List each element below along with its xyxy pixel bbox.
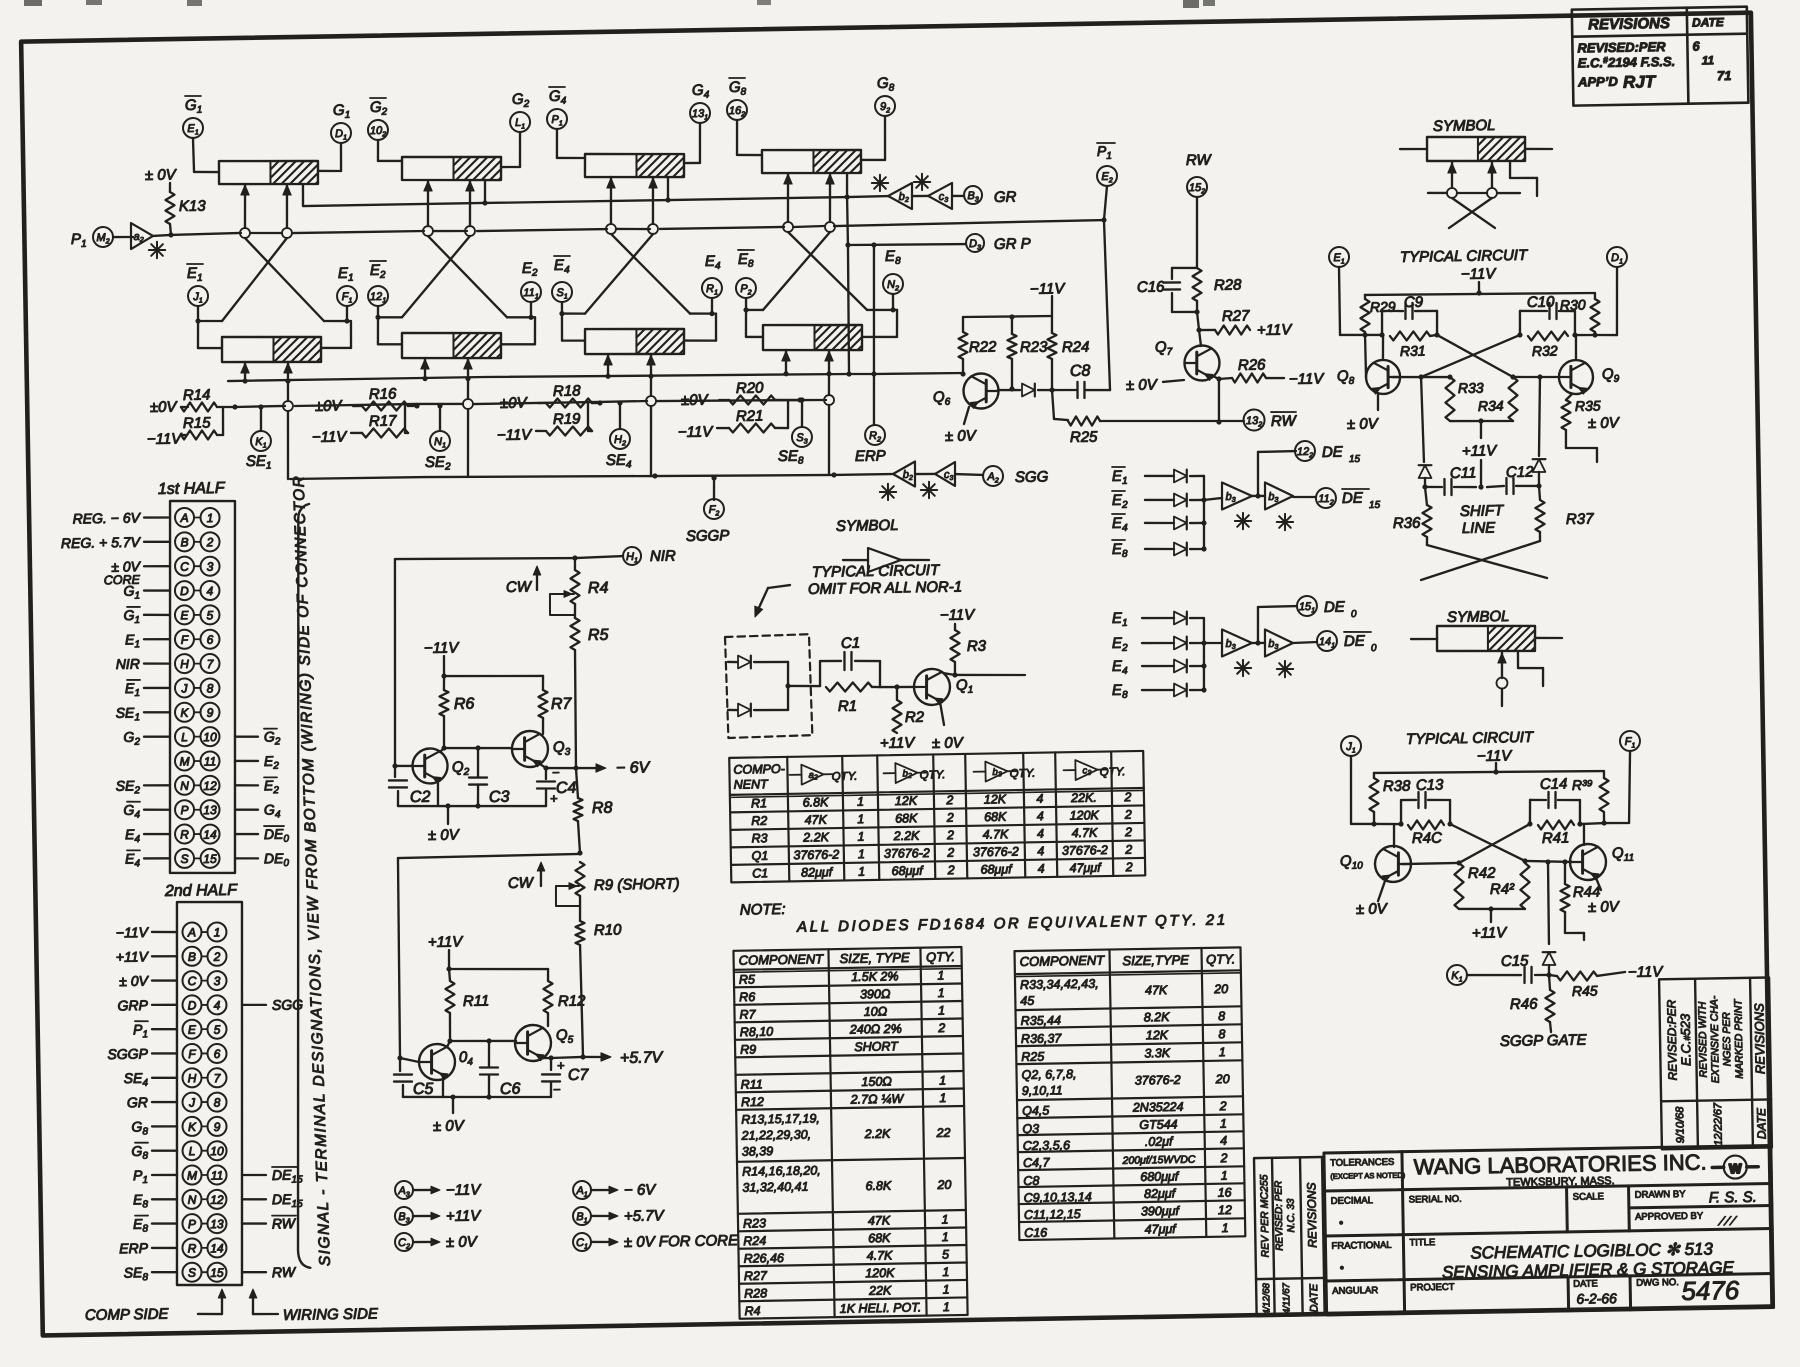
- terminal 13-2 (RWbar): [1243, 409, 1264, 430]
- stage2 left frame wire: [397, 858, 402, 1058]
- svg-text:R25: R25: [1021, 1050, 1044, 1064]
- svg-text:R2: R2: [905, 709, 925, 726]
- wire E8 to diode: [1142, 690, 1174, 691]
- wire down from diode node to RW line: [1052, 390, 1054, 419]
- svg-text:C1: C1: [841, 635, 860, 652]
- capacitor C15: [1523, 967, 1526, 983]
- terminal S3 (SE8): [800, 400, 803, 427]
- terminal 14-1 (DE0bar): [1317, 631, 1337, 651]
- 1st HALF pin L-10: [175, 727, 194, 746]
- 1st HALF right label row 12: [235, 784, 258, 787]
- svg-text:APPROVED BY: APPROVED BY: [1635, 1211, 1704, 1223]
- 2nd HALF pin D-4: [182, 995, 201, 1014]
- svg-text:37676-2: 37676-2: [793, 848, 839, 863]
- wire E2 terminal down to bus junction and on to C8 line: [1103, 186, 1107, 220]
- svg-text:+11V: +11V: [428, 933, 465, 951]
- R9 wiper square: [556, 886, 580, 907]
- svg-text:1: 1: [939, 1074, 946, 1088]
- wire Ebar8 to diode: [1145, 547, 1174, 550]
- wire M2 to amp a2: [113, 236, 133, 239]
- capacitor C5: [399, 1058, 402, 1071]
- 2nd HALF pin C-3: [182, 971, 201, 990]
- Q8 base line wires: [1392, 376, 1450, 378]
- resistor R41: [1538, 820, 1574, 830]
- rail wire Q8/Q9 circuit: [1365, 291, 1595, 297]
- svg-text:6.8K: 6.8K: [803, 795, 830, 809]
- diode pair in dashed box: [728, 661, 737, 664]
- svg-text:OMIT FOR ALL NOR-1: OMIT FOR ALL NOR-1: [808, 578, 962, 598]
- svg-text:RW: RW: [1271, 413, 1298, 430]
- collector bus wire under row2 boxes to Q6: [228, 377, 485, 382]
- svg-text:2.7Ω ¼W: 2.7Ω ¼W: [850, 1092, 905, 1107]
- tap wire box2 hatch corner to G line: [483, 180, 486, 203]
- 2nd HALF pin B-2: [182, 947, 201, 966]
- svg-text:200μf/15WVDC: 200μf/15WVDC: [1121, 1154, 1195, 1167]
- svg-text:R38: R38: [1383, 778, 1411, 795]
- wire R3 to Q1 collector and output: [954, 662, 957, 675]
- 1st HALF pin H-7: [175, 654, 194, 673]
- svg-text:−11V: −11V: [147, 430, 184, 448]
- svg-text:DATE: DATE: [1754, 1107, 1769, 1139]
- svg-text:22K: 22K: [868, 1283, 892, 1297]
- wire Ebar2 to diode: [1145, 498, 1174, 501]
- svg-text:1: 1: [1221, 1169, 1228, 1183]
- svg-text:11: 11: [211, 1168, 224, 1182]
- svg-text:NOTE:: NOTE:: [740, 901, 786, 919]
- core pair 1: bus hop circles: [240, 228, 250, 238]
- svg-text:8.2K: 8.2K: [1144, 1010, 1171, 1024]
- svg-text:390Ω: 390Ω: [860, 987, 891, 1002]
- resistor R40: [1408, 820, 1444, 830]
- capacitor C6: [487, 1041, 490, 1067]
- 2nd HALF pin S-15: [182, 1263, 201, 1282]
- svg-text:R11: R11: [741, 1077, 763, 1091]
- resistor R3: [954, 624, 957, 630]
- svg-text:4: 4: [1220, 1134, 1227, 1148]
- wire P1 terminal to box3 left: [555, 129, 558, 158]
- svg-text:R22: R22: [969, 339, 997, 356]
- wire Ebar1 to diode: [1145, 474, 1174, 477]
- svg-text:C16: C16: [1024, 1226, 1047, 1240]
- arrow to dashed box: [768, 585, 790, 588]
- svg-text:1: 1: [858, 865, 865, 879]
- svg-text:+11V: +11V: [1462, 442, 1499, 460]
- terminal H1 (NIR): [623, 547, 641, 565]
- svg-text:SGG: SGG: [1015, 468, 1049, 486]
- svg-text:1.5K 2%: 1.5K 2%: [851, 969, 898, 984]
- transistor Q3: [512, 731, 549, 768]
- svg-text:R37: R37: [1566, 511, 1594, 528]
- svg-text:4.7K: 4.7K: [983, 827, 1010, 841]
- terminal K1: [1447, 965, 1467, 985]
- svg-text:R44: R44: [1573, 883, 1601, 900]
- wire loop to Q11 collector: [1582, 824, 1585, 845]
- 1st HALF pin K-9: [175, 703, 194, 722]
- svg-text:12K: 12K: [1146, 1028, 1169, 1042]
- svg-text:4: 4: [214, 998, 221, 1012]
- svg-text:M: M: [187, 1168, 197, 1182]
- svg-text:K: K: [188, 1120, 197, 1134]
- svg-text:S: S: [180, 852, 188, 866]
- svg-text:NGES PER: NGES PER: [1721, 1012, 1734, 1067]
- 1st HALF pin E-5: [175, 605, 194, 624]
- 2nd HALF pin N-12: [182, 1190, 201, 1209]
- svg-text:SERIAL NO.: SERIAL NO.: [1409, 1194, 1462, 1206]
- svg-text:A: A: [179, 511, 188, 525]
- wire R7 to Q3 collector: [542, 718, 545, 734]
- svg-text:RW: RW: [272, 1264, 297, 1280]
- core pair 2: lead wires from row1 box bottom to bus: [427, 180, 429, 226]
- svg-text:DWG NO.: DWG NO.: [1636, 1277, 1679, 1289]
- diode E2: [1174, 636, 1187, 649]
- 1st HALF pin S-15: [175, 849, 194, 868]
- svg-text:CW: CW: [508, 875, 535, 892]
- svg-text:± 0V: ± 0V: [1588, 898, 1621, 916]
- wire down to R27 node: [1197, 312, 1199, 330]
- rail wire R22 R23 R24 tops: [963, 316, 1052, 318]
- svg-text:SHIFT: SHIFT: [1460, 502, 1505, 520]
- svg-text:38,39: 38,39: [742, 1144, 774, 1159]
- svg-text:C12: C12: [1506, 464, 1534, 481]
- core transformer box row1 #1: [219, 159, 319, 185]
- svg-text:82μμf: 82μμf: [1144, 1186, 1177, 1201]
- legend terminal C2 = ± 0V: [395, 1233, 413, 1251]
- amp b3 second (DE0bar): [1265, 629, 1294, 656]
- svg-text:2: 2: [1125, 860, 1133, 874]
- terminal K1 (SE1): [259, 407, 262, 431]
- transistor Q8: [1366, 360, 1401, 395]
- svg-text:12: 12: [203, 779, 217, 793]
- svg-text:SGGP GATE: SGGP GATE: [1500, 1032, 1588, 1050]
- svg-text:NENT: NENT: [734, 777, 770, 792]
- svg-text:Q2, 6,7,8,: Q2, 6,7,8,: [1021, 1067, 1076, 1082]
- svg-text:RW: RW: [1186, 152, 1213, 169]
- wire F1 lead down: [1628, 751, 1631, 823]
- core pair 4: Ebar terminal junction wires: [745, 298, 748, 310]
- core pair 3: bus hop circles: [606, 224, 616, 234]
- svg-text:C: C: [188, 974, 197, 988]
- resistor R12: [547, 969, 550, 981]
- svg-text:NIR: NIR: [116, 656, 140, 672]
- svg-text:± 0V FOR CORE: ± 0V FOR CORE: [624, 1232, 739, 1251]
- wire E1 down to base node: [1339, 267, 1340, 335]
- vertical wire pair4 from collector bus down through SE hop to lower bus: [827, 374, 830, 395]
- svg-text:DE: DE: [1344, 633, 1366, 650]
- wire loop right node to R39/F1: [1580, 823, 1604, 824]
- svg-text:SGGP: SGGP: [686, 527, 730, 545]
- transistor Q1: [914, 669, 951, 706]
- svg-text:390μμf: 390μμf: [1141, 1204, 1181, 1219]
- svg-text:M: M: [179, 754, 189, 768]
- svg-text:R31: R31: [1400, 343, 1426, 359]
- svg-text:Q4,5: Q4,5: [1022, 1104, 1049, 1118]
- svg-text:SGGP: SGGP: [107, 1045, 148, 1062]
- svg-text:DE: DE: [1322, 444, 1344, 461]
- svg-text:R4²: R4²: [1490, 881, 1515, 898]
- wire bus to b3 amp DE0: [1204, 642, 1222, 645]
- component table right: [1015, 947, 1246, 1240]
- capacitor C8: [1076, 382, 1079, 398]
- svg-text:0: 0: [1371, 643, 1377, 654]
- svg-text:REVISIONS: REVISIONS: [1588, 15, 1670, 33]
- svg-text:R27: R27: [744, 1269, 768, 1283]
- rail wire R11/R12 tops: [449, 967, 548, 970]
- svg-text:9/10/68: 9/10/68: [1674, 1106, 1687, 1144]
- svg-text:R1: R1: [751, 796, 767, 810]
- Q9 base line wires: [1513, 376, 1560, 378]
- core pair 3: E terminal junction wires: [711, 298, 714, 314]
- 2nd HALF right label row 4: [242, 1003, 266, 1006]
- core pair 1: lead wires from row1 box bottom to bus: [244, 184, 246, 228]
- svg-text:4.7K: 4.7K: [1072, 826, 1099, 840]
- potentiometer R9: [575, 862, 585, 896]
- svg-text:.02μf: .02μf: [1145, 1134, 1174, 1148]
- core transformer box row2 #1: [222, 335, 322, 363]
- svg-text:37676-2: 37676-2: [973, 845, 1019, 860]
- svg-text:R35: R35: [1575, 398, 1601, 414]
- wire to F2 terminal: [712, 478, 715, 500]
- svg-text:71: 71: [1717, 68, 1732, 83]
- svg-text:1: 1: [857, 795, 864, 809]
- svg-text:8: 8: [1218, 1009, 1225, 1023]
- svg-text:C11: C11: [1450, 465, 1477, 482]
- wire C8 to E2 vertical: [1086, 388, 1110, 391]
- symbol winding wire with arrow and hop: [1500, 652, 1503, 678]
- svg-text:± 0V: ± 0V: [1588, 414, 1621, 432]
- svg-text:+11V: +11V: [116, 948, 150, 965]
- terminal A2 (SGG): [983, 466, 1003, 486]
- svg-text:S: S: [188, 1266, 196, 1280]
- Q3 emitter to -6V line: [540, 764, 546, 768]
- svg-text:C16: C16: [1137, 279, 1165, 296]
- base line Q2 collector to Q3 base: [444, 747, 511, 749]
- row2 box3 winding lead wires from collector bus: [606, 354, 609, 376]
- svg-text:R14,16,18,20,: R14,16,18,20,: [742, 1163, 821, 1178]
- svg-text:680μμf: 680μμf: [1140, 1169, 1180, 1184]
- diode Ebar8: [1174, 542, 1187, 555]
- transistor Q2: [412, 748, 448, 784]
- svg-text:R7: R7: [739, 1007, 756, 1021]
- bus wire a2 output running right (P1 drive line): [171, 233, 241, 235]
- 1st HALF pin M-11: [175, 751, 194, 770]
- svg-text:5: 5: [214, 1023, 221, 1037]
- 2nd HALF pin M-11: [182, 1165, 201, 1184]
- svg-text:R36,37: R36,37: [1021, 1031, 1063, 1046]
- diode E4: [1174, 659, 1187, 672]
- svg-text:R17: R17: [369, 412, 397, 429]
- amp b2 (SGG input buffer): [893, 462, 916, 487]
- resistor R34: [1508, 377, 1518, 421]
- svg-text:6-2-66: 6-2-66: [1576, 1290, 1617, 1307]
- svg-text:R10: R10: [594, 921, 622, 938]
- svg-text:C4: C4: [556, 780, 577, 797]
- svg-text:C5: C5: [413, 1081, 434, 1098]
- svg-text:R33: R33: [1458, 380, 1484, 396]
- svg-text:37676-2: 37676-2: [1135, 1073, 1181, 1088]
- legend terminal A3 = −11V: [395, 1181, 413, 1199]
- 2nd HALF pin E-5: [182, 1020, 201, 1039]
- resistor R7: [542, 676, 545, 690]
- svg-text:2N35224: 2N35224: [1132, 1100, 1184, 1115]
- svg-text:5: 5: [942, 1248, 949, 1262]
- svg-text:2: 2: [1219, 1151, 1227, 1165]
- core pair 2: crossing diagonal wires: [428, 235, 507, 319]
- resistor R13 (K13) to +-0V: [169, 183, 172, 192]
- revisions box top-right: [1572, 7, 1749, 106]
- wire diode to bus: [1190, 499, 1204, 502]
- svg-text:68μμf: 68μμf: [891, 864, 924, 879]
- wire R19 to junction: [588, 430, 592, 433]
- svg-text:C8: C8: [1070, 363, 1091, 380]
- svg-text:1: 1: [941, 1213, 948, 1227]
- svg-text:R12: R12: [558, 993, 586, 1010]
- svg-text:D: D: [188, 998, 197, 1012]
- core transformer box row1 #3: [585, 152, 685, 178]
- G sense line from box1 hatch corner running right to GR amps: [301, 184, 304, 206]
- svg-text:GT544: GT544: [1139, 1117, 1177, 1132]
- wire R8 to R9 junction: [578, 821, 580, 853]
- wire rail to R22/collector: [962, 317, 965, 332]
- -6V output wire: [546, 768, 576, 769]
- svg-text:LINE: LINE: [1462, 519, 1497, 537]
- resistor R33: [1445, 377, 1455, 421]
- svg-text:13: 13: [210, 1217, 224, 1231]
- stage2 top wire: [398, 854, 580, 858]
- svg-text:10: 10: [203, 730, 217, 744]
- svg-text:TEWKSBURY, MASS.: TEWKSBURY, MASS.: [1506, 1175, 1615, 1189]
- terminal B3 (GR): [964, 186, 982, 204]
- 2nd HALF pin J-8: [182, 1092, 201, 1111]
- svg-text:8: 8: [1218, 1027, 1225, 1041]
- svg-text:68μμf: 68μμf: [980, 862, 1013, 877]
- svg-text:1: 1: [937, 969, 944, 983]
- wire base node down to Q8 base: [1365, 335, 1366, 377]
- svg-text:1: 1: [942, 1265, 949, 1279]
- wire R12 to Q5 collector: [547, 1013, 550, 1026]
- capacitor C2: [394, 766, 397, 777]
- svg-text:5476: 5476: [1681, 1275, 1740, 1306]
- Q11 emitter wire: [1596, 878, 1601, 890]
- Q10 base line wires: [1402, 863, 1459, 864]
- core pair 3: crossing diagonal wires: [611, 233, 690, 315]
- svg-text:REG. − 6V: REG. − 6V: [72, 509, 141, 526]
- svg-text:DE: DE: [1324, 599, 1346, 616]
- title block grid: [1324, 1145, 1774, 1314]
- resistor R11: [449, 969, 450, 981]
- stage1 bottom rail wire: [398, 804, 546, 809]
- svg-text:10Ω: 10Ω: [864, 1005, 888, 1019]
- stage1 top wire to NIR: [395, 556, 575, 561]
- svg-text:CORE: CORE: [104, 573, 141, 588]
- wire D1 down to node: [1616, 267, 1618, 335]
- svg-text:TITLE: TITLE: [1409, 1237, 1435, 1248]
- svg-text:+11V: +11V: [1472, 924, 1509, 942]
- svg-text:QTY.: QTY.: [926, 949, 955, 964]
- wire 16-2 terminal to box4 left: [736, 120, 737, 155]
- svg-text:R6: R6: [454, 696, 475, 713]
- svg-text:47μμf: 47μμf: [1069, 861, 1102, 876]
- symbol right step wire lower: [1517, 651, 1520, 668]
- wire Q4 base to left frame: [400, 1058, 419, 1063]
- +-0V stub stage2: [452, 1097, 455, 1113]
- wire +11V node to shift line center: [1479, 460, 1482, 487]
- svg-text:R5: R5: [739, 972, 755, 986]
- svg-text:F: F: [188, 1047, 196, 1061]
- wire diode to bus: [1190, 522, 1204, 525]
- junction and wire up to 15-1 terminal: [1255, 640, 1260, 645]
- svg-text:2: 2: [1124, 843, 1132, 857]
- base line Q4 to Q5: [450, 1040, 516, 1042]
- svg-text:4: 4: [1036, 792, 1043, 806]
- symbol leads: [1400, 147, 1427, 150]
- 1st HALF right label row 15: [235, 857, 258, 860]
- row2 box4 winding lead wires from collector bus: [784, 350, 787, 374]
- svg-text:+11V: +11V: [1257, 321, 1294, 339]
- svg-text:+11V: +11V: [446, 1207, 483, 1225]
- svg-text:1K HELI. POT.: 1K HELI. POT.: [840, 1300, 922, 1315]
- svg-text:TOLERANCES: TOLERANCES: [1330, 1157, 1394, 1169]
- core pair 4: crossing diagonal wires: [788, 231, 867, 311]
- C14/R41 coupling loop: [1528, 800, 1531, 824]
- svg-text:± 0V: ± 0V: [446, 1233, 479, 1251]
- svg-text:C1: C1: [752, 866, 768, 880]
- junction bus to E2/P1bar vertical: [1101, 217, 1106, 222]
- symbol right step wire: [1509, 161, 1512, 178]
- svg-text:1: 1: [858, 847, 865, 861]
- 2nd HALF right label row 11: [242, 1173, 266, 1176]
- svg-text:31,32,40,41: 31,32,40,41: [742, 1180, 808, 1195]
- resistor R39: [1603, 771, 1606, 778]
- Q2 collector to base-line wire: [440, 748, 444, 752]
- svg-text:RW: RW: [272, 1215, 297, 1231]
- svg-text:R36: R36: [1393, 515, 1421, 532]
- svg-text:−11V: −11V: [116, 924, 150, 941]
- svg-text:R45: R45: [1572, 983, 1598, 999]
- svg-text:15: 15: [210, 1266, 224, 1280]
- svg-text:2: 2: [947, 863, 955, 877]
- scan artifacts along top edge: [24, 0, 42, 6]
- resistor R24: [1050, 316, 1053, 333]
- svg-text:R: R: [188, 1241, 197, 1255]
- svg-text:SYMBOL: SYMBOL: [836, 517, 899, 535]
- amp component table: [729, 751, 1145, 882]
- svg-text:20: 20: [936, 1178, 951, 1192]
- svg-text:68K: 68K: [895, 811, 918, 825]
- diode Ebar4: [1174, 516, 1187, 529]
- svg-text:± 0V: ± 0V: [119, 973, 150, 990]
- svg-text:R4C: R4C: [1412, 830, 1442, 848]
- svg-text:14: 14: [210, 1241, 224, 1255]
- svg-text:−: −: [553, 1082, 561, 1097]
- core transformer box row2 #3: [585, 327, 685, 355]
- 1st HALF connector box: [164, 500, 241, 874]
- resistor R26 to -11V: [1219, 378, 1232, 379]
- amp symbol triangle: [868, 547, 902, 572]
- wire box1 right to D1 terminal: [318, 169, 341, 172]
- svg-text:R8,10: R8,10: [740, 1025, 774, 1040]
- R42/R43 bottom wire and +11V: [1459, 908, 1525, 910]
- capacitor C3: [476, 748, 479, 777]
- terminal 12-2 (DE15): [1295, 441, 1315, 461]
- C1/R1 parallel input network: [818, 661, 821, 686]
- wire box4 right to 9-2 terminal: [861, 158, 885, 161]
- svg-text:C9: C9: [1404, 294, 1424, 311]
- resistor R31: [1390, 331, 1430, 341]
- diode E8: [1174, 683, 1187, 696]
- svg-text:QTY.: QTY.: [1206, 951, 1235, 966]
- svg-text:R14: R14: [183, 387, 211, 404]
- svg-text:4: 4: [1038, 862, 1045, 876]
